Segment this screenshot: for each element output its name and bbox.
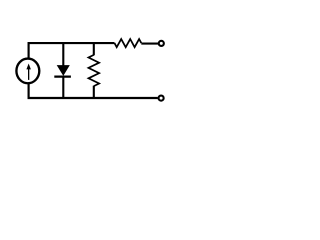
diode bbox=[54, 43, 71, 98]
terminal (bottom, open circle) bbox=[159, 96, 164, 101]
terminal (top, open circle) bbox=[159, 41, 164, 46]
current source bbox=[16, 59, 39, 84]
resistor (series, horizontal zigzag) bbox=[115, 39, 142, 47]
top wire bbox=[29, 43, 115, 58]
wire (top lead of shunt resistor) bbox=[93, 43, 95, 55]
wire (bottom lead of shunt resistor) bbox=[93, 86, 95, 98]
wire (series resistor to top terminal) bbox=[141, 43, 158, 45]
resistor (shunt, vertical zigzag) bbox=[89, 55, 100, 86]
bottom wire bbox=[29, 84, 158, 98]
